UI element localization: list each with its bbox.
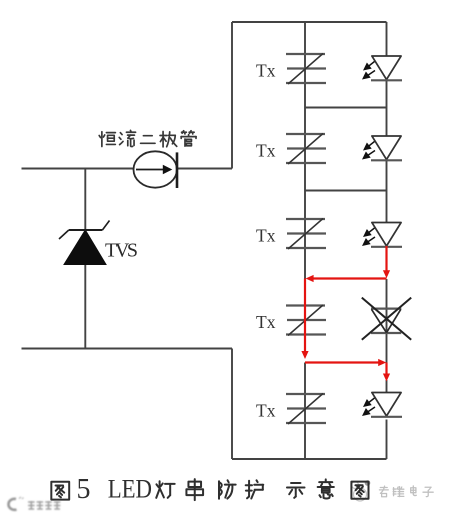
svg-text:Tx: Tx	[256, 312, 276, 332]
svg-text:Tx: Tx	[256, 140, 276, 160]
svg-text:LED: LED	[108, 474, 152, 504]
svg-text:5: 5	[77, 474, 91, 505]
svg-text:TVS: TVS	[105, 240, 138, 262]
svg-text:Tx: Tx	[256, 225, 276, 245]
svg-text:Tx: Tx	[256, 400, 276, 420]
svg-text:Tx: Tx	[256, 60, 276, 80]
